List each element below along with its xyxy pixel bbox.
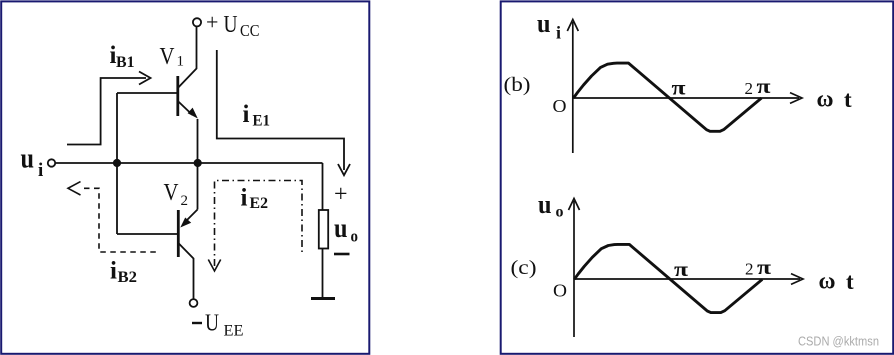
svg-text:E2: E2: [250, 195, 269, 212]
svg-text:o: o: [556, 204, 564, 221]
svg-text:2: 2: [181, 193, 189, 209]
svg-text:E1: E1: [253, 112, 271, 129]
svg-text:O: O: [553, 96, 567, 116]
svg-text:i: i: [38, 160, 43, 181]
svg-text:+: +: [334, 182, 348, 208]
svg-text:t: t: [844, 87, 852, 112]
svg-text:t: t: [846, 269, 854, 294]
svg-text:2: 2: [745, 79, 754, 98]
svg-text:u: u: [538, 190, 552, 219]
svg-text:EE: EE: [224, 323, 244, 340]
svg-text:V: V: [160, 44, 176, 70]
svg-text:(b): (b): [504, 74, 531, 96]
svg-text:(c): (c): [511, 257, 537, 279]
svg-text:i: i: [243, 101, 250, 128]
svg-text:O: O: [553, 281, 567, 301]
svg-text:u: u: [21, 143, 35, 175]
svg-text:o: o: [351, 227, 359, 246]
svg-text:u: u: [334, 213, 348, 243]
svg-text:U: U: [224, 11, 238, 38]
svg-text:π: π: [674, 257, 689, 281]
svg-text:U: U: [205, 310, 219, 337]
svg-text:+: +: [206, 10, 218, 35]
svg-text:i: i: [556, 22, 561, 42]
svg-text:ω: ω: [819, 269, 836, 294]
svg-text:u: u: [537, 9, 551, 38]
svg-text:i: i: [110, 258, 117, 285]
svg-text:CC: CC: [240, 21, 260, 40]
svg-text:V: V: [164, 180, 180, 206]
svg-text:π: π: [757, 74, 772, 98]
svg-text:ω: ω: [817, 86, 834, 111]
svg-text:1: 1: [177, 54, 185, 70]
svg-text:2: 2: [745, 260, 754, 279]
svg-text:B2: B2: [118, 269, 138, 286]
svg-text:B1: B1: [116, 54, 135, 71]
svg-text:CSDN @kktmsn: CSDN @kktmsn: [798, 334, 879, 349]
svg-text:π: π: [757, 255, 772, 279]
svg-text:π: π: [672, 76, 687, 100]
svg-text:i: i: [241, 185, 248, 212]
